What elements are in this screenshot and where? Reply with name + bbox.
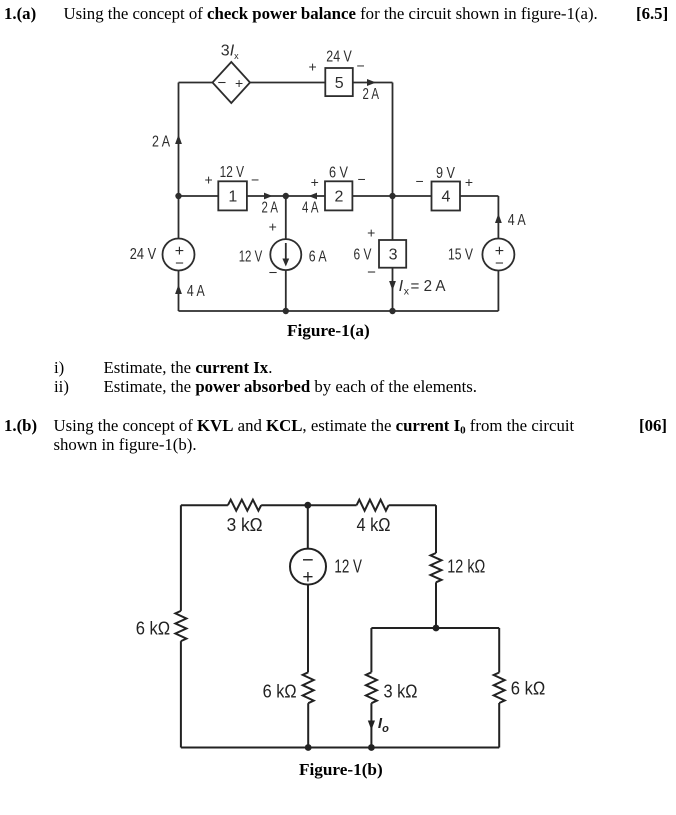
node bottom under source branch xyxy=(305,744,312,751)
resistor 3k inner xyxy=(366,672,377,703)
svg-text:+: + xyxy=(309,59,317,75)
caption Figure-1(a) xyxy=(287,322,370,341)
problem 1.(b) text xyxy=(4,417,37,436)
svg-text:4: 4 xyxy=(442,189,451,206)
resistor 6k left xyxy=(175,611,186,641)
svg-text:24 V: 24 V xyxy=(130,246,157,263)
svg-text:4 A: 4 A xyxy=(187,283,205,300)
label + 12 V - 6 A around current source xyxy=(239,219,327,282)
resistor box 4 xyxy=(432,182,461,211)
svg-text:3Ix: 3Ix xyxy=(221,43,239,62)
node top center xyxy=(304,502,311,509)
svg-text:3 kΩ: 3 kΩ xyxy=(227,514,263,535)
svg-text:−: − xyxy=(218,75,227,92)
current arrow 2A after box 5 xyxy=(363,79,380,103)
resistor box 2 xyxy=(325,181,352,210)
svg-text:3: 3 xyxy=(389,247,398,264)
svg-text:−: − xyxy=(251,172,259,188)
resistor box 1 xyxy=(218,181,247,210)
resistor 6k inner right xyxy=(494,673,505,704)
wire: inner horizontal xyxy=(371,627,499,629)
caption Figure-1(b) xyxy=(299,761,383,780)
svg-text:−: − xyxy=(495,255,504,272)
svg-text:2 A: 2 A xyxy=(262,200,279,217)
svg-text:12 V: 12 V xyxy=(239,249,263,266)
svg-text:+: + xyxy=(269,219,277,235)
wire: inner right branch upper xyxy=(498,628,500,673)
wire: top horizontal xyxy=(179,82,393,84)
svg-text:6 V: 6 V xyxy=(354,247,372,264)
svg-text:2 A: 2 A xyxy=(152,134,170,151)
svg-text:x: x xyxy=(404,286,410,298)
svg-text:6 kΩ: 6 kΩ xyxy=(136,618,171,639)
current arrow 2A on left branch xyxy=(152,134,182,151)
svg-text:+: + xyxy=(311,174,319,190)
voltage source 12V xyxy=(290,549,326,588)
wire: inner left branch upper xyxy=(370,628,372,672)
label - 9 V + for box 4 xyxy=(416,165,474,190)
current arrow Io xyxy=(368,715,389,735)
list items i) ii) xyxy=(54,359,64,378)
node inner junction xyxy=(433,625,440,632)
wire: bottom horizontal xyxy=(179,310,499,312)
svg-text:+: + xyxy=(367,225,375,241)
wire: top horizontal middle segment xyxy=(261,504,356,506)
wire: middle horizontal row xyxy=(179,195,499,197)
svg-text:24 V: 24 V xyxy=(326,48,352,65)
svg-text:−: − xyxy=(269,265,278,282)
svg-text:−: − xyxy=(367,264,376,281)
node bottom under 6A source xyxy=(283,308,289,314)
label + 12 V - for box 1 xyxy=(205,164,260,188)
voltage source 15V xyxy=(482,239,514,272)
wire: left vertical branch xyxy=(178,83,180,312)
node at left of middle row xyxy=(175,193,181,199)
svg-text:6 kΩ: 6 kΩ xyxy=(511,678,546,699)
node C middle row xyxy=(389,193,395,199)
wire: right vertical upper xyxy=(435,505,437,553)
resistor 4k top xyxy=(357,500,389,511)
svg-text:12 V: 12 V xyxy=(334,556,362,577)
wire: middle branch below source xyxy=(307,585,309,673)
svg-text:4 kΩ: 4 kΩ xyxy=(357,514,391,535)
wire: 6A source branch vertical xyxy=(285,196,287,311)
problem 1.(a) text xyxy=(4,5,36,24)
wire: middle branch bottom xyxy=(307,703,309,747)
wire: middle branch from top node to source xyxy=(307,505,309,548)
svg-text:+: + xyxy=(205,172,213,188)
wire: right vertical branch xyxy=(497,196,499,311)
current arrow 2A into node B xyxy=(262,193,279,217)
svg-text:−: − xyxy=(175,255,184,272)
svg-text:4 A: 4 A xyxy=(508,212,526,229)
node B middle row xyxy=(283,193,289,199)
svg-text:6 V: 6 V xyxy=(329,165,348,182)
voltage source 24V xyxy=(163,239,195,272)
wire: right vertical lower to inner node xyxy=(435,582,437,628)
svg-text:12 V: 12 V xyxy=(220,164,245,181)
node bottom under 3k inner xyxy=(368,744,375,751)
svg-text:Io: Io xyxy=(378,715,389,735)
node bottom under box 3 xyxy=(389,308,395,314)
current arrow 4A right branch xyxy=(495,212,526,229)
svg-text:2: 2 xyxy=(335,189,344,206)
svg-text:4 A: 4 A xyxy=(302,200,319,217)
resistor 6k middle xyxy=(303,672,314,703)
current arrow 4A from box 2 to node B xyxy=(302,193,319,217)
current source 6A with 12V label xyxy=(270,239,301,270)
svg-text:12 kΩ: 12 kΩ xyxy=(447,556,485,577)
wire: top horizontal right segment xyxy=(389,504,436,506)
current arrow 4A bottom-left xyxy=(175,283,205,300)
resistor 12k right xyxy=(431,553,442,582)
svg-text:6 kΩ: 6 kΩ xyxy=(263,680,297,701)
wire: inner right branch lower xyxy=(498,703,500,748)
wire: top horizontal left segment xyxy=(181,504,228,506)
wire: inner left branch lower with Io arrow xyxy=(370,703,372,747)
svg-text:2 A: 2 A xyxy=(363,86,380,103)
svg-text:+: + xyxy=(465,174,473,190)
resistor box 5 xyxy=(325,68,353,96)
svg-text:6 A: 6 A xyxy=(309,249,327,266)
wire: left vertical lower xyxy=(180,641,182,747)
svg-text:5: 5 xyxy=(335,75,344,92)
dependent source 3Ix (diamond) xyxy=(213,62,251,103)
svg-text:1: 1 xyxy=(228,189,237,206)
wire: top-right vertical down to box 3 branch xyxy=(392,83,394,312)
svg-text:= 2 A: = 2 A xyxy=(411,278,446,295)
svg-text:−: − xyxy=(358,171,366,187)
svg-text:15 V: 15 V xyxy=(448,247,473,264)
svg-text:−: − xyxy=(357,58,365,74)
current arrow Ix = 2A xyxy=(389,278,446,298)
label + 24 V - for box 5 xyxy=(309,48,365,74)
label + 6 V - for box 3 xyxy=(354,225,377,282)
label + 6 V - for box 2 xyxy=(311,165,366,191)
svg-text:−: − xyxy=(416,173,424,189)
svg-text:3 kΩ: 3 kΩ xyxy=(384,680,418,701)
resistor 3k top xyxy=(228,500,261,511)
wire: left vertical upper xyxy=(180,505,182,611)
svg-text:+: + xyxy=(235,75,243,91)
wire: bottom horizontal xyxy=(181,747,499,749)
svg-text:9 V: 9 V xyxy=(436,165,455,182)
resistor box 3 xyxy=(379,240,406,268)
